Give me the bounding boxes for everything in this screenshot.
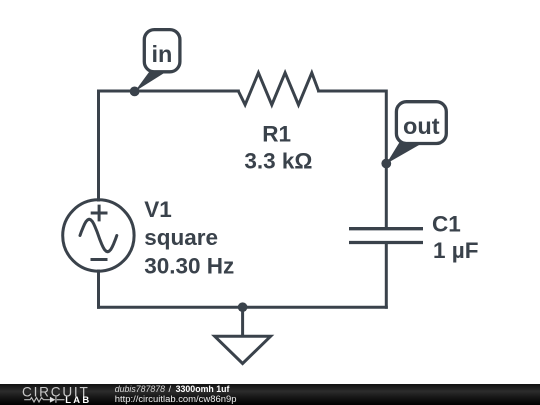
svg-text:in: in	[151, 41, 172, 67]
svg-text:C1: C1	[432, 212, 461, 237]
node dot out	[381, 159, 391, 169]
svg-text:square: square	[144, 225, 218, 250]
svg-text:http://circuitlab.com/cw86n9p: http://circuitlab.com/cw86n9p	[115, 394, 237, 405]
wire left vertical below source	[97, 271, 100, 307]
wedge tail	[386, 139, 419, 164]
node in flag	[130, 30, 180, 97]
svg-text:out: out	[403, 113, 440, 139]
logo diode triangle	[50, 397, 56, 403]
logo resistor zigzag and diode wire	[24, 397, 64, 403]
wedge tail	[135, 68, 165, 92]
footer bar	[0, 384, 540, 405]
svg-text:3.3 kΩ: 3.3 kΩ	[244, 148, 312, 173]
wire ground stub	[241, 307, 244, 335]
svg-text:V1: V1	[144, 197, 172, 222]
wire right vertical below capacitor	[385, 244, 388, 307]
svg-text:LAB: LAB	[65, 394, 91, 405]
voltage source V1	[63, 200, 134, 271]
svg-text:1 µF: 1 µF	[433, 238, 478, 263]
sine wave	[80, 219, 117, 252]
node out flag	[381, 102, 446, 169]
minus sign	[91, 258, 108, 261]
svg-text:R1: R1	[262, 122, 291, 147]
resistor R1	[238, 73, 318, 105]
wire bottom	[99, 306, 387, 309]
junction dot ground	[238, 302, 248, 312]
node dot in	[130, 87, 140, 97]
capacitor C1	[349, 229, 423, 243]
wire top-right from resistor to corner down to capacitor	[319, 91, 387, 227]
plus sign	[91, 205, 108, 222]
ground	[215, 336, 271, 363]
svg-text:30.30 Hz: 30.30 Hz	[144, 254, 234, 279]
wire top-left from corner to resistor	[99, 91, 239, 200]
